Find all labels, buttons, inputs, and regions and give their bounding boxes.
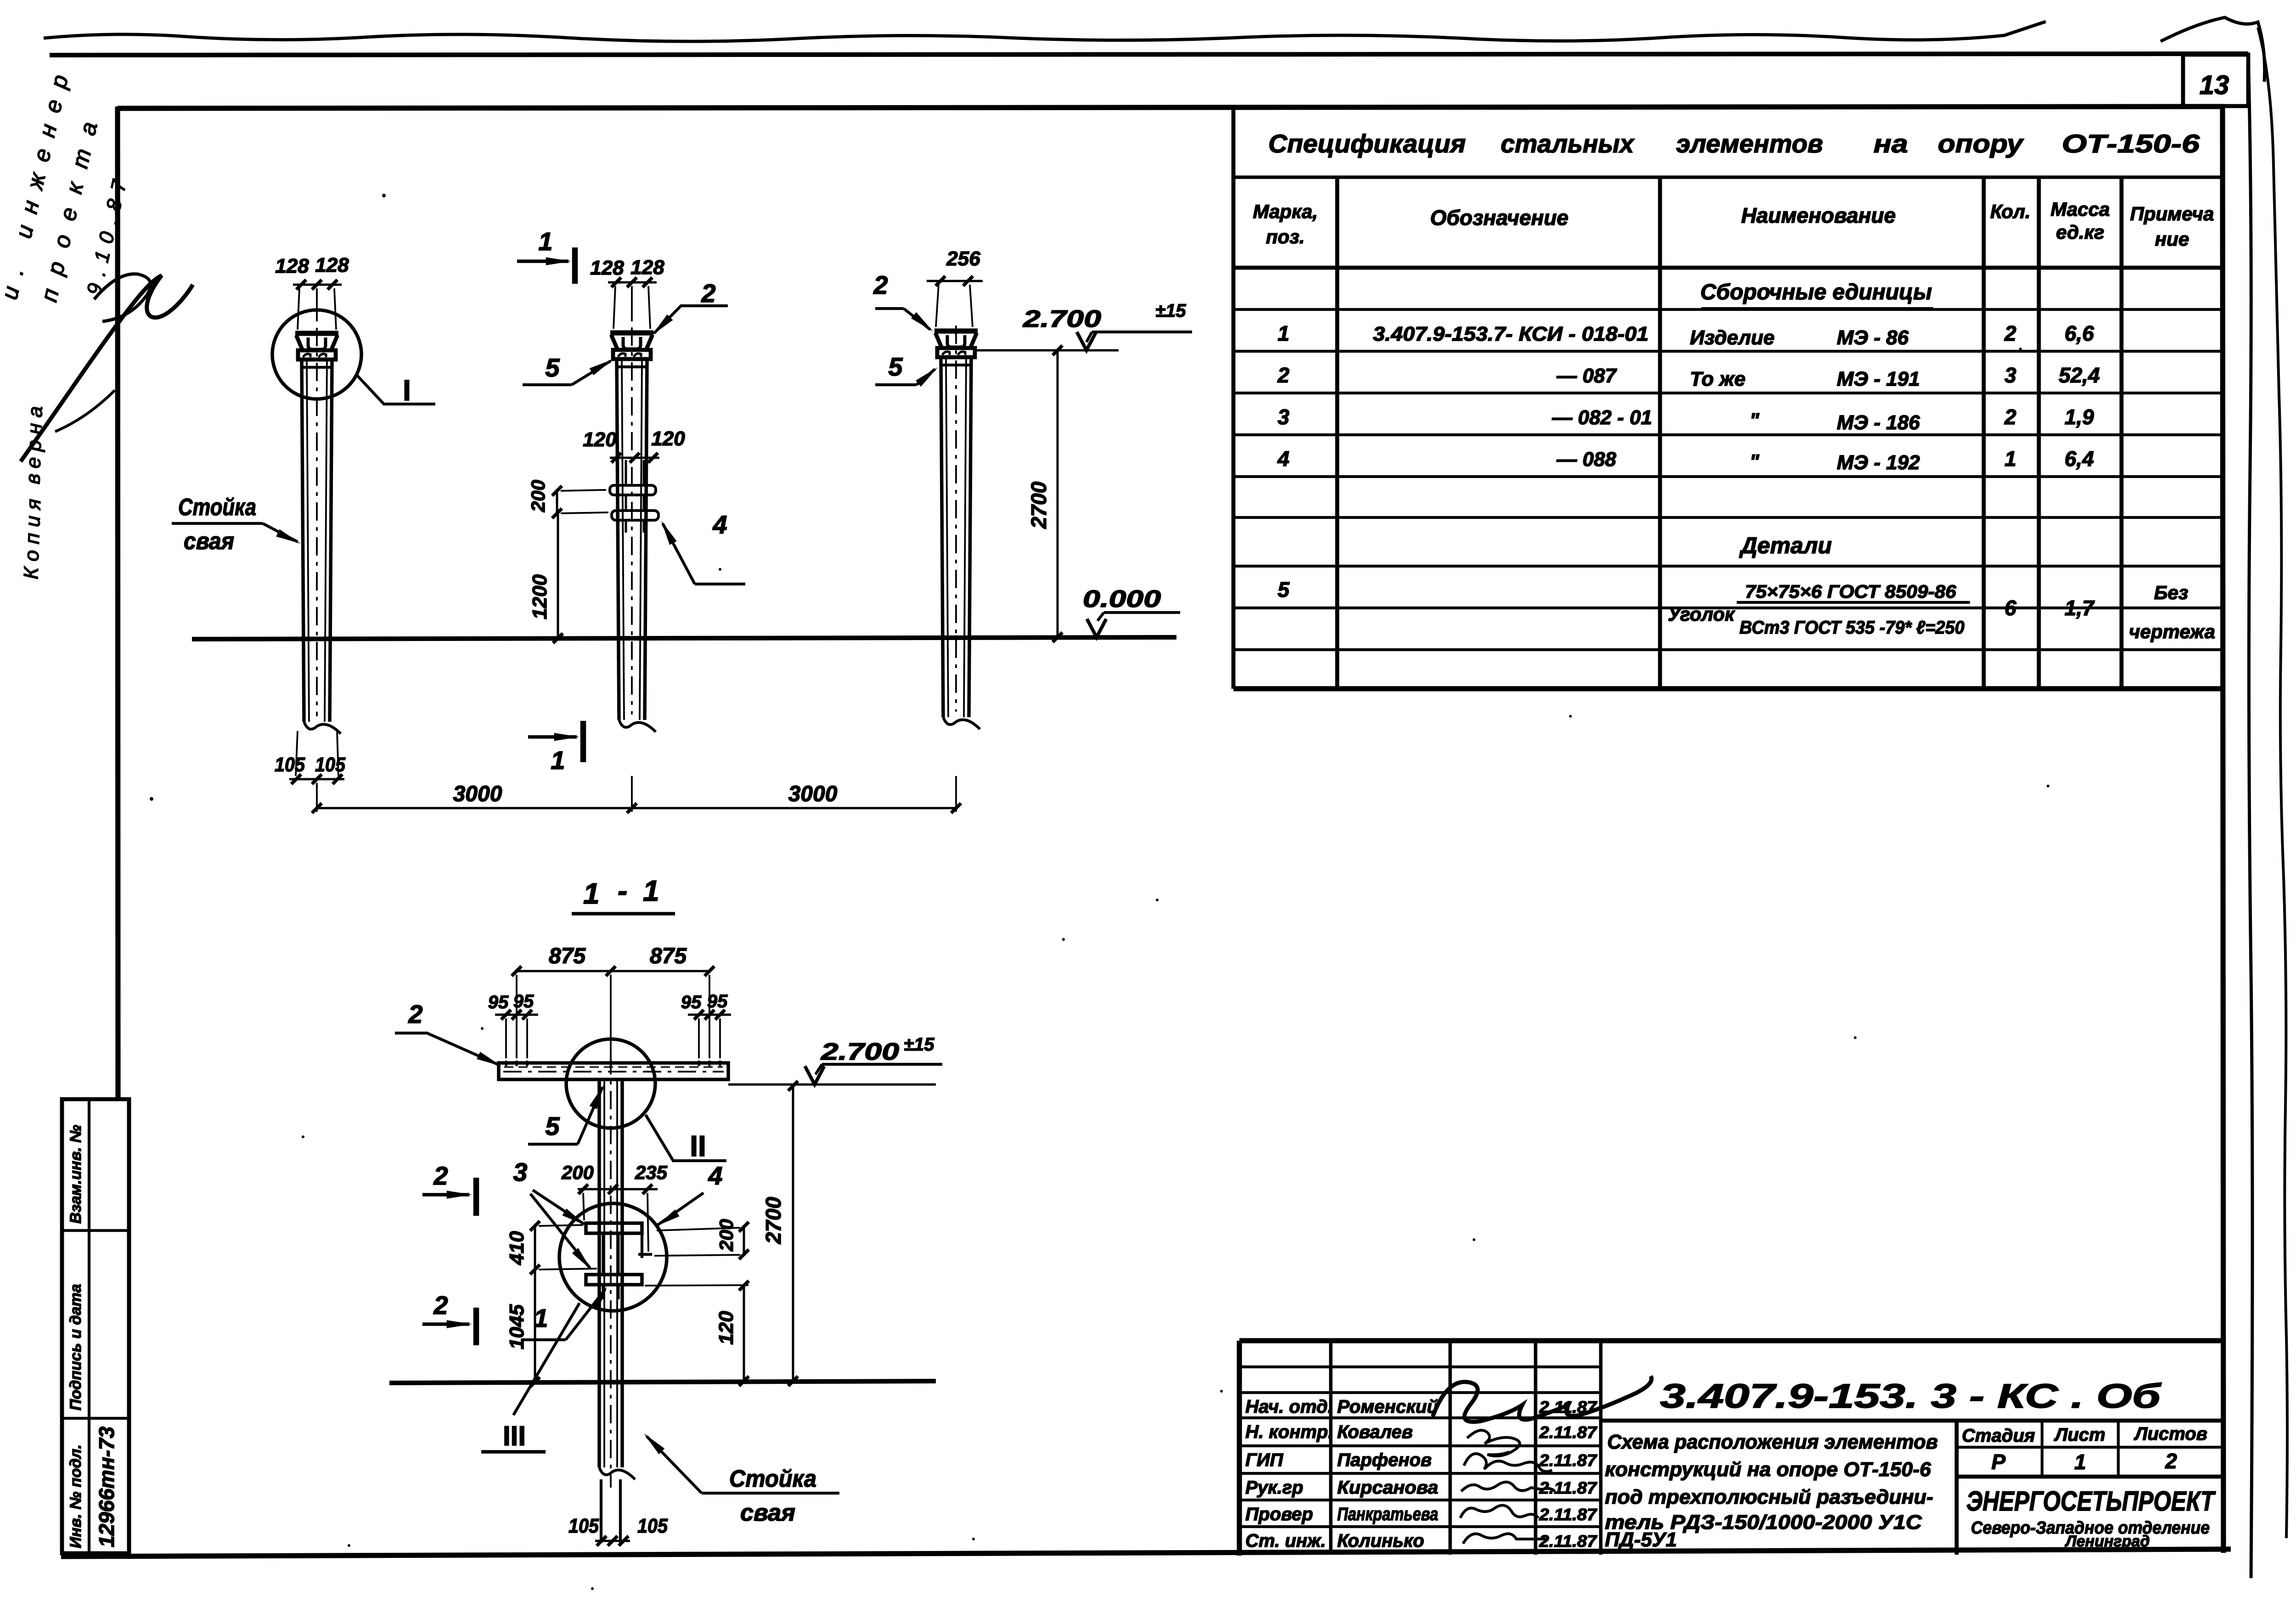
svg-text:Ленинград: Ленинград xyxy=(2065,1533,2150,1550)
dim 1200 pile2 xyxy=(557,513,559,638)
traverse plate (section) xyxy=(499,1063,728,1079)
svg-text:3: 3 xyxy=(513,1157,527,1186)
collar band pile2: lower plate xyxy=(612,511,658,520)
stадия section lines xyxy=(1955,1421,1959,1555)
page number box 13 xyxy=(2183,55,2248,106)
svg-text:— 087: — 087 xyxy=(1556,365,1617,387)
detail circle III xyxy=(559,1203,667,1311)
svg-text:4: 4 xyxy=(1277,447,1289,471)
svg-text:Н. контр.: Н. контр. xyxy=(1245,1422,1333,1442)
svg-text:6,4: 6,4 xyxy=(2065,447,2094,471)
dim 120 120 pile2 xyxy=(610,457,659,459)
svg-text:5: 5 xyxy=(888,352,903,381)
title block row line xyxy=(1239,1416,1601,1419)
svg-text:Масса: Масса xyxy=(2051,198,2110,220)
svg-text:": " xyxy=(1750,409,1760,432)
pile bottom break xyxy=(619,720,656,732)
svg-text:13: 13 xyxy=(2200,70,2229,100)
dim 1045 (section) xyxy=(534,1270,536,1382)
svg-text:410: 410 xyxy=(506,1231,528,1265)
svg-text:2700: 2700 xyxy=(761,1197,785,1244)
svg-text:52,4: 52,4 xyxy=(2059,363,2100,387)
svg-text:2.700: 2.700 xyxy=(821,1039,899,1065)
pile centerline xyxy=(316,328,318,716)
svg-text:МЭ - 191: МЭ - 191 xyxy=(1837,368,1920,390)
svg-text:200: 200 xyxy=(527,480,549,512)
svg-text:ГИП: ГИП xyxy=(1245,1450,1283,1470)
column break at bottom xyxy=(599,1467,635,1479)
svg-text:— 088: — 088 xyxy=(1556,448,1616,471)
svg-text:128: 128 xyxy=(590,257,624,279)
spec table left edge xyxy=(1232,107,1236,689)
dim 875 875 xyxy=(517,970,709,972)
svg-text:Колинько: Колинько xyxy=(1337,1531,1424,1551)
svg-text:— 082 - 01: — 082 - 01 xyxy=(1552,406,1652,429)
clamp lower plate (section) xyxy=(586,1275,642,1285)
svg-text:1: 1 xyxy=(643,874,659,907)
svg-text:ед.кг: ед.кг xyxy=(2056,221,2104,243)
label II with leader xyxy=(646,1115,726,1161)
svg-text:1: 1 xyxy=(2074,1450,2086,1474)
svg-text:I: I xyxy=(403,374,411,407)
svg-text:МЭ - 192: МЭ - 192 xyxy=(1837,451,1920,474)
svg-text:Лист: Лист xyxy=(2054,1425,2105,1445)
collar band pile2: upper plate xyxy=(610,485,656,495)
ground line (section) xyxy=(389,1381,936,1383)
pile body inner walls xyxy=(622,359,624,720)
spec table row line xyxy=(1233,565,2223,568)
svg-text:3.407.9-153. 3 - КС . Об: 3.407.9-153. 3 - КС . Об xyxy=(1660,1377,2162,1415)
title block row line xyxy=(1239,1391,1601,1394)
pile cap inner socket xyxy=(308,337,326,349)
svg-text:-: - xyxy=(618,874,627,907)
svg-text:III: III xyxy=(503,1421,526,1451)
svg-text:Сборочные единицы: Сборочные единицы xyxy=(1700,280,1932,304)
traverse hidden edge dashed xyxy=(504,1067,723,1068)
dim 256 pile3 xyxy=(927,280,983,282)
spec table row line xyxy=(1233,350,2223,353)
svg-text:128: 128 xyxy=(315,254,349,276)
svg-text:105: 105 xyxy=(568,1515,599,1537)
svg-text:Провер: Провер xyxy=(1245,1504,1313,1524)
title block signature columns xyxy=(1329,1341,1333,1555)
svg-text:105: 105 xyxy=(315,753,345,776)
svg-text:стальных: стальных xyxy=(1501,129,1635,158)
svg-text:Роменский: Роменский xyxy=(1337,1397,1438,1417)
svg-text:2: 2 xyxy=(408,1000,422,1028)
svg-text:1: 1 xyxy=(2004,447,2016,471)
pile bottom break xyxy=(943,717,980,729)
svg-text:Марка,: Марка, xyxy=(1253,201,1317,222)
dim 128 128 pile1 xyxy=(293,284,342,286)
svg-text:": " xyxy=(1750,450,1760,473)
pile cap top plate xyxy=(295,331,338,336)
svg-text:200: 200 xyxy=(561,1162,594,1183)
pile joint line xyxy=(942,364,970,366)
svg-text:МЭ - 186: МЭ - 186 xyxy=(1837,411,1920,434)
svg-text:Стойка: Стойка xyxy=(729,1466,816,1492)
svg-text:1: 1 xyxy=(583,877,600,910)
svg-text:2.11.87: 2.11.87 xyxy=(1539,1505,1598,1524)
svg-text:Наименование: Наименование xyxy=(1741,203,1896,227)
svg-text:Р: Р xyxy=(1992,1450,2006,1474)
pile joint line xyxy=(618,365,646,368)
svg-text:Стойка: Стойка xyxy=(178,494,256,521)
dim 105 105 pile1 xyxy=(289,778,344,781)
svg-text:95: 95 xyxy=(513,991,534,1011)
dim 3000 3000 bottom of elevation xyxy=(317,807,956,809)
collar bolts xyxy=(303,354,310,357)
svg-text:2: 2 xyxy=(433,1291,448,1320)
left stamp table xyxy=(62,1099,129,1553)
dim 200 (section right) xyxy=(743,1227,745,1254)
svg-text:2: 2 xyxy=(2004,321,2016,345)
svg-text:конструкций на опоре ОТ-150-6: конструкций на опоре ОТ-150-6 xyxy=(1605,1458,1931,1481)
svg-text:ЭНЕРГОСЕТЬПРОЕКТ: ЭНЕРГОСЕТЬПРОЕКТ xyxy=(1966,1486,2216,1517)
svg-text:2.11.87: 2.11.87 xyxy=(1539,1451,1598,1470)
svg-text:875: 875 xyxy=(650,944,687,968)
section mark 1 upper xyxy=(517,259,568,263)
pile cap cup sides xyxy=(935,333,942,348)
pile body inner walls xyxy=(307,360,309,722)
svg-text:поз.: поз. xyxy=(1266,226,1305,247)
title block row line xyxy=(1239,1444,1601,1447)
dims 95 95 right xyxy=(688,1014,731,1016)
svg-text:МЭ - 86: МЭ - 86 xyxy=(1837,326,1909,349)
handwritten signature flourish xyxy=(21,275,193,461)
spec table column lines xyxy=(1335,177,1339,689)
svg-text:свая: свая xyxy=(740,1500,795,1526)
spec table bottom xyxy=(1233,686,2223,691)
spec table row line xyxy=(1233,392,2223,394)
pile cap top plate xyxy=(934,328,978,333)
clamp angle right xyxy=(641,1223,643,1258)
spec table header title row xyxy=(1233,175,2223,179)
spec table row line xyxy=(1233,433,2223,436)
svg-text:Спецификация: Спецификация xyxy=(1268,129,1466,158)
svg-text:2.700: 2.700 xyxy=(1023,306,1101,332)
svg-text:128: 128 xyxy=(275,255,309,277)
svg-text:Листов: Листов xyxy=(2133,1424,2207,1444)
svg-text:1,7: 1,7 xyxy=(2065,596,2095,620)
detail circle I xyxy=(272,310,361,399)
svg-text:5: 5 xyxy=(545,1112,560,1141)
svg-text:Панкратьева: Панкратьева xyxy=(1337,1504,1438,1524)
svg-text:0.000: 0.000 xyxy=(1083,586,1161,612)
svg-text:200: 200 xyxy=(715,1219,737,1252)
dim 2700 elevation xyxy=(1057,350,1059,637)
dim 200 left of collar xyxy=(556,491,558,513)
svg-text:4: 4 xyxy=(708,1161,722,1190)
svg-text:Кирсанова: Кирсанова xyxy=(1337,1478,1438,1498)
svg-text:ние: ние xyxy=(2155,228,2189,250)
svg-text:Кол.: Кол. xyxy=(1990,201,2031,222)
signature Ковалев xyxy=(1467,1430,1520,1456)
svg-text:120: 120 xyxy=(583,428,617,451)
traverse bolt marks xyxy=(505,1061,507,1066)
svg-text:Детали: Детали xyxy=(1739,533,1832,558)
pile body inner walls xyxy=(946,357,948,717)
pile joint line xyxy=(303,366,331,369)
svg-text:1200: 1200 xyxy=(529,574,551,619)
title block row line xyxy=(1239,1499,1601,1501)
svg-text:Стадия: Стадия xyxy=(1962,1426,2035,1446)
section mark 1 lower xyxy=(528,735,577,739)
svg-text:Ст. инж.: Ст. инж. xyxy=(1245,1531,1326,1551)
svg-text:5: 5 xyxy=(545,353,560,382)
pile cap top plate xyxy=(610,330,653,335)
svg-text:Без: Без xyxy=(2154,582,2189,603)
label III with leader xyxy=(513,1303,580,1415)
svg-text:120: 120 xyxy=(651,427,685,450)
svg-text:256: 256 xyxy=(946,247,980,270)
svg-text:2: 2 xyxy=(2165,1449,2177,1473)
dim 2700 (section) xyxy=(792,1086,794,1381)
pile cap cup sides xyxy=(296,335,303,350)
svg-text:6,6: 6,6 xyxy=(2065,321,2094,345)
svg-text:12966тн-73: 12966тн-73 xyxy=(95,1426,118,1547)
paper right edge (wavy) xyxy=(2258,28,2287,1538)
mid line of row 5 in cols 1-2 and 6 xyxy=(1233,607,1660,609)
doc number box line xyxy=(1601,1419,2223,1423)
svg-text:2: 2 xyxy=(701,279,715,308)
svg-text:Рук.гр: Рук.гр xyxy=(1245,1478,1303,1498)
svg-text:5: 5 xyxy=(1277,578,1290,601)
svg-text:II: II xyxy=(690,1129,706,1163)
title block row line xyxy=(1239,1365,1601,1368)
svg-text:1: 1 xyxy=(534,1304,548,1332)
pile body outer walls xyxy=(617,359,619,720)
svg-text:2.11.87: 2.11.87 xyxy=(1539,1532,1598,1551)
svg-text:1: 1 xyxy=(551,746,565,775)
pile cap collar xyxy=(613,350,651,359)
spec table row line xyxy=(1233,648,2223,651)
svg-text:120: 120 xyxy=(715,1311,737,1345)
section column below plate xyxy=(597,1079,601,1467)
svg-text:Инв. № подл.: Инв. № подл. xyxy=(67,1444,84,1548)
pile cap cup sides xyxy=(611,335,618,350)
svg-text:3.407.9-153.7- КСИ - 018-01: 3.407.9-153.7- КСИ - 018-01 xyxy=(1373,323,1649,345)
title block row line xyxy=(1239,1472,1601,1475)
pile cap collar xyxy=(298,350,336,360)
svg-text:2: 2 xyxy=(873,270,888,299)
svg-text:Ковалев: Ковалев xyxy=(1337,1422,1413,1442)
svg-text:2.11.87: 2.11.87 xyxy=(1539,1423,1598,1442)
svg-text:Примеча: Примеча xyxy=(2130,203,2214,225)
svg-text:2: 2 xyxy=(2004,405,2016,429)
svg-text:Обозначение: Обозначение xyxy=(1430,206,1568,230)
ground line (elevation) xyxy=(192,637,1176,639)
clamp upper plate (section) xyxy=(586,1223,642,1233)
title block outer xyxy=(1239,1338,2223,1343)
svg-text:1: 1 xyxy=(1277,321,1289,345)
dims 95 95 left xyxy=(495,1014,538,1016)
svg-text:±15: ±15 xyxy=(1155,301,1186,321)
pile cap collar xyxy=(937,348,975,357)
pile body outer walls xyxy=(941,357,943,717)
pile centerline xyxy=(631,327,633,714)
signature Кирсанова xyxy=(1461,1482,1555,1491)
svg-text:875: 875 xyxy=(549,944,586,968)
svg-text:95: 95 xyxy=(488,992,509,1012)
svg-text:под трехполюсный разъедини-: под трехполюсный разъедини- xyxy=(1605,1486,1933,1508)
collar bolts verticals xyxy=(625,460,627,485)
svg-text:3000: 3000 xyxy=(788,782,838,806)
svg-text:6: 6 xyxy=(2004,596,2016,620)
svg-text:95: 95 xyxy=(681,992,702,1012)
big signature Роменский xyxy=(1433,1376,1651,1422)
svg-text:3: 3 xyxy=(2004,363,2016,387)
signature Парфенов xyxy=(1464,1454,1552,1472)
label I with leader xyxy=(357,376,435,404)
sheet right inner line xyxy=(2248,54,2252,1578)
svg-text:ПД-5У1: ПД-5У1 xyxy=(1605,1528,1677,1551)
dim 105 105 (section) xyxy=(595,1540,630,1542)
spec table row line xyxy=(1233,516,2223,519)
detail circle II xyxy=(566,1039,655,1128)
svg-text:105: 105 xyxy=(637,1515,668,1537)
svg-text:Уголок: Уголок xyxy=(1668,603,1735,625)
svg-text:1,9: 1,9 xyxy=(2065,405,2094,429)
spec table row line xyxy=(1233,475,2223,478)
svg-text:Схема расположения элементов: Схема расположения элементов xyxy=(1607,1431,1938,1453)
pile body outer walls xyxy=(302,360,304,722)
signature Колинько xyxy=(1463,1534,1546,1544)
signature Панкратьева xyxy=(1460,1506,1538,1518)
spec table row line xyxy=(1233,607,2223,609)
svg-text:Взам.инв. №: Взам.инв. № xyxy=(67,1125,84,1224)
column stub continues below break xyxy=(600,1479,602,1543)
svg-text:105: 105 xyxy=(275,753,305,776)
svg-text:1: 1 xyxy=(538,227,552,256)
svg-text:Парфенов: Парфенов xyxy=(1337,1450,1432,1470)
sheet top line xyxy=(50,54,2248,55)
svg-text:То же: То же xyxy=(1690,368,1745,390)
pile cap inner socket xyxy=(623,337,641,349)
svg-text:2: 2 xyxy=(433,1161,448,1190)
dim 235 (section top) xyxy=(607,1188,658,1191)
svg-text:Нач. отд.: Нач. отд. xyxy=(1245,1397,1333,1417)
svg-text:2: 2 xyxy=(1277,363,1289,387)
pile centerline xyxy=(955,326,957,712)
title block row line xyxy=(1239,1525,1601,1528)
pile cap inner socket xyxy=(947,335,965,347)
dim 410 (section) xyxy=(534,1226,536,1270)
drawing frame xyxy=(118,107,2223,108)
svg-text:3000: 3000 xyxy=(453,782,502,806)
pile bottom break xyxy=(304,722,341,734)
dim 200 (section top) xyxy=(578,1188,618,1191)
collar bolts xyxy=(942,352,950,355)
paper top edge (wavy scan line) xyxy=(44,22,2046,41)
svg-text:4: 4 xyxy=(712,510,727,539)
dim 120 (section right) xyxy=(645,1285,748,1286)
svg-text:свая: свая xyxy=(184,528,234,555)
svg-text:ОТ-150-6: ОТ-150-6 xyxy=(2062,129,2200,158)
svg-text:элементов: элементов xyxy=(1676,129,1823,158)
svg-text:75×75×6 ГОСТ 8509-86: 75×75×6 ГОСТ 8509-86 xyxy=(1745,582,1957,602)
clamp bolts verticals xyxy=(602,1233,604,1275)
svg-text:ВСт3 ГОСТ 535 -79* ℓ=250: ВСт3 ГОСТ 535 -79* ℓ=250 xyxy=(1739,618,1964,638)
dim 128 128 pile2 xyxy=(608,281,657,284)
spec table header row bottom xyxy=(1233,266,2223,270)
svg-text:±15: ±15 xyxy=(904,1034,934,1055)
svg-text:чертежа: чертежа xyxy=(2129,621,2215,642)
svg-text:на: на xyxy=(1874,129,1908,158)
fraction bar for Уголок xyxy=(1737,601,1970,604)
paper corner curl top-right xyxy=(2161,17,2265,82)
collar bolts xyxy=(618,354,625,357)
svg-text:Изделие: Изделие xyxy=(1690,326,1774,349)
level line 2.700 elevation xyxy=(975,349,1119,352)
svg-text:235: 235 xyxy=(635,1162,668,1183)
svg-text:2700: 2700 xyxy=(1027,481,1051,529)
svg-text:95: 95 xyxy=(707,991,728,1011)
svg-text:3: 3 xyxy=(1277,405,1289,429)
svg-text:128: 128 xyxy=(630,256,664,279)
svg-text:опору: опору xyxy=(1938,129,2024,158)
spec table row line xyxy=(1233,308,2223,311)
svg-text:Подпись и дата: Подпись и дата xyxy=(67,1284,84,1410)
svg-text:1045: 1045 xyxy=(506,1304,528,1349)
